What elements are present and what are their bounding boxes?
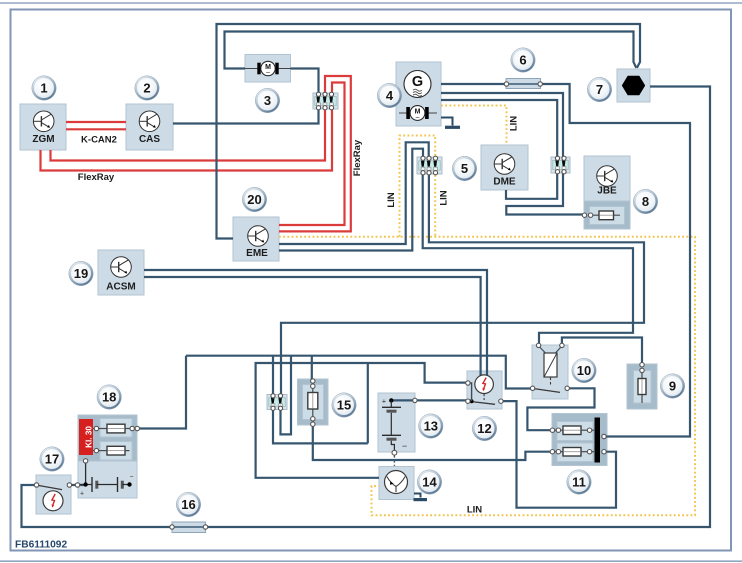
svg-text:LIN: LIN — [386, 192, 397, 207]
svg-text:ZGM: ZGM — [32, 134, 54, 145]
svg-text:Kl. 30: Kl. 30 — [85, 426, 94, 448]
svg-text:5: 5 — [461, 161, 468, 176]
svg-text:11: 11 — [572, 475, 586, 490]
svg-text:FB6111092: FB6111092 — [15, 540, 67, 551]
svg-text:FlexRay: FlexRay — [78, 172, 115, 183]
svg-text:17: 17 — [45, 452, 59, 467]
svg-text:20: 20 — [247, 192, 261, 207]
svg-text:4: 4 — [386, 88, 394, 103]
svg-text:LIN: LIN — [439, 190, 450, 205]
svg-text:6: 6 — [519, 53, 526, 68]
svg-text:+: + — [382, 397, 387, 406]
svg-text:14: 14 — [422, 475, 437, 490]
svg-text:LIN: LIN — [467, 505, 482, 516]
svg-text:8: 8 — [642, 194, 649, 209]
svg-text:−: − — [402, 441, 407, 451]
svg-text:9: 9 — [669, 379, 676, 394]
svg-text:K-CAN2: K-CAN2 — [81, 135, 117, 146]
svg-text:EME: EME — [246, 248, 268, 259]
svg-text:LIN: LIN — [509, 116, 520, 131]
svg-text:13: 13 — [424, 419, 438, 434]
svg-text:FlexRay: FlexRay — [352, 139, 363, 176]
svg-text:∼: ∼ — [415, 115, 420, 121]
svg-text:18: 18 — [102, 390, 116, 405]
svg-text:10: 10 — [577, 363, 591, 378]
svg-text:−: − — [129, 474, 133, 481]
svg-text:2: 2 — [143, 81, 150, 96]
svg-text:16: 16 — [181, 497, 195, 512]
svg-text:ACSM: ACSM — [106, 282, 135, 293]
svg-text:DME: DME — [493, 177, 516, 188]
svg-text:+: + — [80, 491, 84, 498]
svg-text:12: 12 — [477, 421, 491, 436]
svg-text:∼: ∼ — [265, 71, 270, 77]
svg-text:JBE: JBE — [597, 186, 617, 197]
svg-text:G: G — [412, 74, 423, 90]
svg-text:3: 3 — [264, 93, 271, 108]
svg-text:15: 15 — [337, 398, 351, 413]
svg-text:CAS: CAS — [139, 134, 160, 145]
svg-text:1: 1 — [40, 81, 47, 96]
svg-text:7: 7 — [596, 82, 603, 97]
svg-text:19: 19 — [74, 266, 88, 281]
